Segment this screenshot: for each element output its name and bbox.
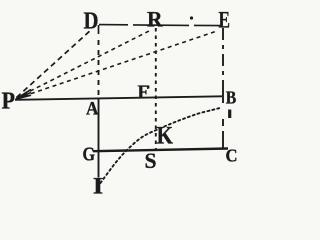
wire main horizontal P-A-F-B [15, 96, 222, 100]
svg-text:A: A [86, 99, 99, 120]
wire dashed P to E [17, 31, 218, 99]
svg-text:D: D [84, 9, 99, 35]
wire dashed P to R [17, 30, 152, 98]
wire top edge D-E [99, 25, 222, 26]
svg-text:I: I [93, 174, 104, 199]
wire bottom edge G-S-C [93, 149, 228, 152]
svg-text:P: P [2, 89, 16, 115]
wire left edge solid A-G-I [98, 98, 100, 178]
wire dotted curve I to B [101, 108, 223, 184]
wire left edge dotted A-D [98, 25, 100, 34]
svg-text:R: R [147, 7, 163, 32]
svg-text:B: B [226, 88, 237, 108]
node dot on top edge [190, 16, 193, 19]
svg-text:S: S [145, 148, 157, 173]
wire right edge dash-dot E-B-C [222, 28, 224, 148]
svg-text:K: K [157, 121, 174, 150]
wire dashed P to D [17, 29, 93, 98]
node tick I below B [228, 110, 231, 119]
svg-text:C: C [226, 146, 238, 166]
svg-text:G: G [83, 144, 96, 166]
svg-text:F: F [138, 82, 150, 103]
wire vertical dotted R-F-S [155, 28, 157, 149]
junction wedge at P [16, 90, 31, 100]
tick after F [148, 86, 150, 89]
svg-text:E: E [219, 8, 231, 33]
